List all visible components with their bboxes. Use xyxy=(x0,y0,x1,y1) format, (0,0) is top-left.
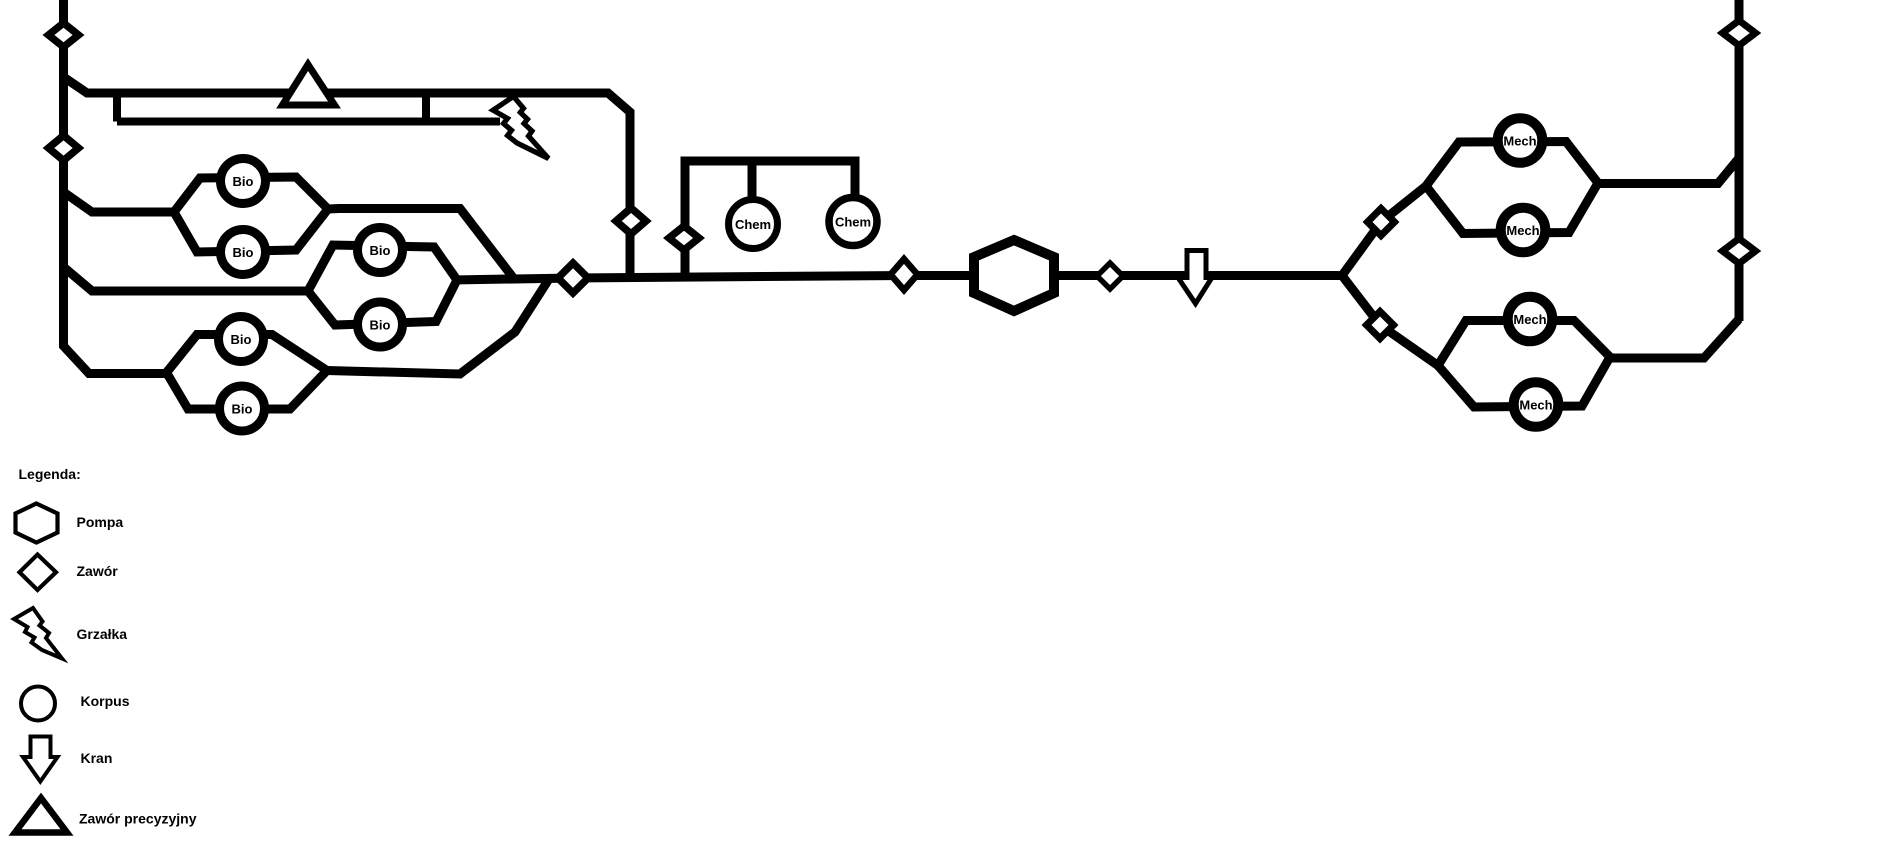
svg-text:Mech: Mech xyxy=(1513,312,1546,327)
svg-text:Bio: Bio xyxy=(232,402,253,417)
svg-text:Mech: Mech xyxy=(1506,223,1539,238)
svg-text:Chem: Chem xyxy=(735,217,771,232)
svg-text:Zawór: Zawór xyxy=(77,563,119,579)
svg-text:Pompa: Pompa xyxy=(77,514,124,530)
svg-text:Bio: Bio xyxy=(370,243,391,258)
svg-text:Zawór precyzyjny: Zawór precyzyjny xyxy=(79,811,197,827)
svg-text:Bio: Bio xyxy=(233,245,254,260)
svg-text:Bio: Bio xyxy=(370,318,391,333)
svg-text:Grzałka: Grzałka xyxy=(77,626,128,642)
svg-text:Mech: Mech xyxy=(1519,398,1552,413)
svg-text:Bio: Bio xyxy=(231,332,252,347)
svg-text:Legenda:: Legenda: xyxy=(19,466,81,482)
svg-text:Kran: Kran xyxy=(81,750,113,766)
svg-text:Korpus: Korpus xyxy=(81,693,130,709)
svg-text:Bio: Bio xyxy=(233,174,254,189)
svg-text:Mech: Mech xyxy=(1503,134,1536,149)
svg-text:Chem: Chem xyxy=(835,215,871,230)
